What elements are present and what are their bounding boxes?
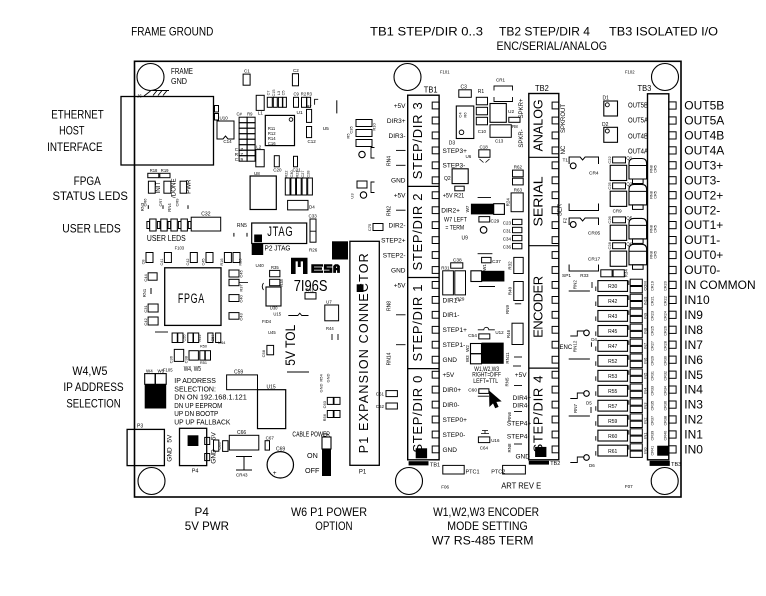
testpoint TP2: [360, 192, 366, 198]
svg-text:RN1: RN1: [142, 288, 147, 297]
svg-text:DIR0-: DIR0-: [443, 402, 460, 409]
svg-text:C64: C64: [480, 445, 489, 450]
svg-text:U9: U9: [462, 236, 469, 242]
svg-text:R56: R56: [322, 413, 327, 421]
svg-text:IN1: IN1: [684, 428, 703, 442]
svg-text:GND: GND: [326, 373, 331, 382]
svg-text:= TERM: = TERM: [445, 224, 464, 231]
resistor R60: [598, 430, 628, 441]
svg-text:C35: C35: [349, 126, 354, 134]
svg-text:TB3: TB3: [638, 84, 652, 93]
svg-text:COM: COM: [642, 281, 647, 290]
svg-text:+5V: +5V: [443, 372, 455, 379]
capacitors row below FPGA C55 R50 R51 C57: [155, 331, 168, 333]
mounting hole top-middle: [394, 64, 421, 91]
svg-text:RN3: RN3: [140, 202, 145, 211]
board outline: [135, 61, 682, 497]
svg-text:W6: W6: [322, 432, 329, 437]
svg-text:IN2: IN2: [642, 417, 647, 424]
connector P1 expansion: [350, 241, 379, 465]
svg-text:C43: C43: [239, 313, 244, 321]
svg-text:UP UP FALLBACK: UP UP FALLBACK: [174, 418, 230, 427]
svg-text:STEP1+: STEP1+: [443, 327, 468, 334]
svg-text:5V TOL: 5V TOL: [283, 324, 298, 365]
svg-text:RN11: RN11: [505, 352, 510, 364]
MESA logo: [291, 258, 308, 274]
capacitors row C8 C41 C42b C45 R16 R20: [146, 253, 153, 263]
svg-text:OUT5B: OUT5B: [684, 99, 724, 113]
diode pair row R47: [630, 339, 642, 345]
svg-text:CR5: CR5: [653, 191, 657, 199]
resistor R57: [598, 400, 628, 411]
svg-text:D3: D3: [449, 140, 456, 146]
svg-text:OUT0-: OUT0-: [684, 263, 720, 277]
svg-text:CR35: CR35: [651, 401, 655, 411]
svg-text:GND: GND: [391, 267, 406, 274]
svg-text:F2: F2: [563, 217, 569, 223]
resistor R43: [598, 311, 628, 322]
svg-text:C23: C23: [503, 220, 512, 225]
svg-text:R63: R63: [514, 188, 523, 193]
svg-text:C2: C2: [293, 68, 299, 73]
capacitor C74 cluster: [357, 181, 367, 188]
svg-text:C45: C45: [239, 270, 244, 278]
chassis ground symbol J6: [144, 91, 151, 96]
svg-text:RN8: RN8: [507, 443, 512, 452]
svg-text:R30: R30: [608, 284, 617, 290]
svg-text:W5: W5: [158, 369, 165, 374]
svg-text:GND: GND: [166, 447, 173, 462]
svg-text:STEP4+: STEP4+: [507, 421, 532, 428]
svg-text:F06: F06: [441, 485, 449, 490]
svg-text:OUT5A: OUT5A: [684, 114, 724, 128]
diode pair row R43: [630, 309, 642, 315]
svg-text:IN4: IN4: [642, 387, 647, 394]
svg-text:W1,W2,W3 ENCODER: W1,W2,W3 ENCODER: [433, 505, 539, 519]
wire under RN7: [569, 415, 590, 417]
svg-text:IN1: IN1: [642, 432, 647, 439]
svg-text:U10: U10: [220, 116, 229, 121]
svg-text:P4: P4: [192, 469, 199, 475]
svg-text:INIT: INIT: [155, 182, 162, 194]
svg-text:OUT0+: OUT0+: [684, 248, 723, 262]
TB3 bottom bar: [650, 461, 670, 466]
svg-text:W1: W1: [482, 264, 487, 271]
svg-text:IN5: IN5: [684, 368, 703, 382]
svg-text:IN7: IN7: [684, 338, 703, 352]
svg-text:STEP/DIR 4: STEP/DIR 4: [531, 376, 546, 453]
svg-text:C67: C67: [266, 435, 275, 440]
resistor R38: [270, 279, 280, 285]
svg-text:C61: C61: [376, 391, 385, 396]
svg-text:STATUS LEDS: STATUS LEDS: [52, 189, 127, 203]
wire segment right of U1: [336, 100, 338, 113]
svg-text:D6: D6: [589, 463, 595, 468]
svg-text:FRAME: FRAME: [171, 67, 193, 76]
diode pair row R57: [630, 399, 642, 405]
TB1 pin1 black square: [416, 448, 427, 458]
TB2 bottom bar: [529, 461, 549, 465]
svg-text:SP1: SP1: [562, 273, 571, 279]
svg-text:R44: R44: [326, 326, 334, 331]
wire above ENC rows: [569, 290, 590, 292]
svg-text:OUT2-: OUT2-: [684, 203, 720, 217]
svg-text:R54: R54: [319, 374, 324, 382]
capacitor C20: [274, 156, 279, 167]
capacitors CN pair right of ethernet: [215, 106, 219, 113]
svg-text:R49: R49: [198, 335, 202, 342]
svg-text:IN8: IN8: [684, 323, 703, 337]
capacitor C12: [307, 127, 312, 138]
svg-text:F105: F105: [163, 368, 173, 373]
svg-text:PTC1: PTC1: [466, 469, 480, 475]
svg-text:C42: C42: [186, 259, 190, 266]
svg-text:CR23: CR23: [651, 311, 655, 321]
svg-text:C5: C5: [282, 91, 286, 96]
svg-text:GND: GND: [319, 383, 324, 392]
svg-text:C75: C75: [367, 223, 372, 231]
svg-text:PWR: PWR: [186, 179, 193, 194]
svg-text:IN8: IN8: [642, 327, 647, 334]
svg-text:U15: U15: [273, 312, 281, 317]
svg-text:IN3: IN3: [684, 398, 703, 412]
svg-text:ETHERNET: ETHERNET: [51, 107, 104, 121]
svg-text:OFF: OFF: [305, 466, 320, 475]
svg-text:RN12: RN12: [572, 340, 577, 352]
svg-text:ART REV E: ART REV E: [501, 481, 541, 490]
capacitor C75: [373, 224, 383, 231]
svg-text:C27: C27: [301, 171, 305, 178]
svg-text:GND: GND: [391, 178, 406, 185]
capacitor C45 right of FPGA: [229, 270, 239, 277]
svg-text:CR29: CR29: [651, 356, 655, 366]
svg-text:U2: U2: [508, 109, 514, 115]
svg-text:DIR4-: DIR4-: [513, 403, 530, 410]
svg-text:CR26: CR26: [664, 326, 668, 336]
svg-text:W4: W4: [146, 369, 153, 374]
svg-text:R47: R47: [608, 344, 617, 350]
svg-text:C20: C20: [273, 168, 282, 173]
diode pair row R59: [630, 414, 642, 420]
capacitor C21: [294, 156, 298, 167]
svg-text:C36: C36: [503, 245, 512, 250]
svg-text:R51: R51: [200, 361, 207, 365]
svg-text:RN8: RN8: [387, 301, 393, 311]
inductor L1: [256, 95, 264, 110]
diode CR43: [236, 456, 252, 458]
resistor R47: [598, 341, 628, 352]
svg-text:D5: D5: [586, 401, 592, 406]
svg-text:C55: C55: [183, 335, 187, 342]
svg-text:CR40: CR40: [664, 431, 668, 441]
TB3 pin1 black square: [657, 446, 668, 456]
svg-text:R31: R31: [441, 265, 450, 270]
svg-text:C37: C37: [492, 259, 501, 265]
svg-text:IN7: IN7: [642, 342, 647, 349]
svg-text:C45: C45: [202, 259, 206, 266]
resistor R53: [598, 370, 628, 381]
svg-text:U44: U44: [218, 340, 226, 345]
svg-text:C9: C9: [294, 92, 300, 97]
svg-text:RN2: RN2: [387, 206, 393, 216]
svg-text:U1: U1: [297, 110, 303, 116]
svg-text:STEP1-: STEP1-: [443, 342, 466, 349]
svg-text:C31: C31: [503, 228, 512, 233]
svg-text:FID4: FID4: [262, 319, 272, 324]
resistor R8: [509, 117, 520, 122]
resistors R5 C35 R10 cluster: [356, 120, 372, 127]
capacitor C29: [479, 217, 490, 222]
svg-text:IN6: IN6: [684, 353, 703, 367]
svg-text:USER LEDS: USER LEDS: [147, 234, 186, 243]
svg-text:CR34: CR34: [664, 386, 668, 396]
capacitor C13: [490, 125, 511, 138]
svg-text:ENCODER: ENCODER: [531, 276, 546, 338]
TB1 pins: [432, 102, 439, 109]
svg-text:R8: R8: [512, 124, 518, 129]
diode pair row R53: [630, 369, 642, 375]
svg-text:CR41: CR41: [651, 446, 655, 456]
svg-text:FPGA: FPGA: [178, 291, 205, 306]
svg-text:C34: C34: [503, 236, 512, 241]
chip U30: [262, 283, 263, 290]
svg-text:R29: R29: [456, 297, 465, 302]
mounting hole bottom-middle: [396, 468, 423, 495]
svg-text:RN5: RN5: [237, 223, 247, 229]
svg-text:U30: U30: [270, 306, 278, 311]
fuse U12: [478, 327, 495, 330]
svg-text:R55: R55: [608, 389, 617, 395]
svg-text:R61: R61: [608, 449, 617, 455]
svg-text:F102: F102: [625, 70, 635, 75]
svg-text:INTERFACE: INTERFACE: [47, 140, 103, 154]
svg-text:IN COMMON: IN COMMON: [684, 278, 755, 292]
svg-text:R9: R9: [247, 112, 253, 117]
svg-text:C10: C10: [478, 129, 487, 134]
svg-text:W6 P1 POWER: W6 P1 POWER: [291, 505, 367, 519]
svg-text:CR31: CR31: [651, 371, 655, 381]
svg-text:USER LEDS: USER LEDS: [62, 222, 121, 236]
svg-text:U7: U7: [326, 300, 332, 305]
svg-text:CR38: CR38: [664, 416, 668, 426]
svg-text:R62: R62: [514, 165, 523, 170]
mounting hole bottom-left: [138, 468, 165, 495]
svg-text:FRAME GROUND: FRAME GROUND: [131, 25, 213, 39]
svg-text:OUT5B: OUT5B: [628, 102, 648, 109]
svg-text:U6: U6: [466, 154, 472, 159]
svg-text:IN3: IN3: [642, 402, 647, 409]
svg-text:C#: C#: [237, 112, 243, 117]
svg-text:RN6: RN6: [507, 412, 512, 421]
svg-text:CR32: CR32: [664, 371, 668, 381]
svg-text:IN10: IN10: [684, 293, 710, 307]
svg-text:R7: R7: [307, 104, 313, 109]
jumper symbol D5: [570, 393, 584, 399]
svg-text:CR5: CR5: [653, 165, 657, 173]
svg-text:R45: R45: [608, 329, 617, 335]
svg-text:R32: R32: [508, 261, 513, 270]
TB1 left dashes: [396, 149, 406, 151]
svg-text:DIR0+: DIR0+: [443, 387, 462, 394]
svg-text:HOST: HOST: [59, 124, 85, 138]
TB2 pin1 black square: [535, 447, 546, 457]
svg-text:+5V: +5V: [394, 103, 406, 110]
svg-text:C31: C31: [143, 305, 148, 313]
svg-text:C57: C57: [211, 335, 215, 342]
resistor R59: [598, 415, 628, 426]
svg-text:C38: C38: [184, 355, 189, 363]
svg-text:STEP2-: STEP2-: [383, 252, 406, 259]
svg-text:C13: C13: [495, 139, 504, 144]
svg-text:R18: R18: [150, 168, 158, 173]
svg-text:+5V: +5V: [515, 372, 527, 379]
svg-text:STEP2+: STEP2+: [381, 238, 406, 245]
svg-text:U5: U5: [323, 126, 329, 132]
svg-text:C60: C60: [468, 387, 477, 393]
svg-text:RN4: RN4: [167, 203, 172, 212]
svg-text:R20: R20: [239, 259, 243, 266]
svg-text:CR43: CR43: [236, 473, 248, 478]
svg-text:C7: C7: [267, 91, 271, 96]
svg-text:W3: W3: [465, 355, 470, 362]
TB2 section dividers: [529, 156, 559, 158]
svg-text:5V PWR: 5V PWR: [185, 519, 230, 533]
user LEDs CR10-CR13: [150, 219, 156, 231]
svg-text:R16: R16: [220, 259, 224, 266]
svg-text:OUT4B: OUT4B: [628, 133, 648, 140]
svg-text:CR19: CR19: [651, 281, 655, 291]
svg-text:R52: R52: [608, 359, 617, 365]
svg-text:C15: C15: [272, 90, 276, 97]
svg-text:CR05: CR05: [588, 231, 601, 237]
svg-text:STEP0-: STEP0-: [443, 432, 466, 439]
resistor R30: [598, 281, 628, 292]
hook mark near R3: [315, 99, 319, 105]
svg-text:ON: ON: [307, 451, 318, 460]
resistor R55: [598, 385, 628, 396]
svg-text:R38: R38: [279, 279, 284, 287]
svg-text:L2: L2: [256, 145, 262, 150]
svg-text:MODE SETTING: MODE SETTING: [447, 519, 527, 533]
svg-text:U8: U8: [254, 171, 260, 176]
svg-text:R10: R10: [372, 123, 377, 131]
svg-text:RN5: RN5: [504, 377, 509, 386]
testpoint circle near C29: [480, 227, 487, 234]
svg-text:SELECTION: SELECTION: [66, 397, 120, 411]
resistor R37: [229, 279, 239, 285]
svg-text:STEP/DIR 0: STEP/DIR 0: [410, 376, 425, 453]
svg-text:IN9: IN9: [684, 308, 703, 322]
svg-text:R40: R40: [508, 286, 513, 295]
black marker near P1 top: [332, 241, 348, 259]
LED CR6 INIT: [148, 181, 155, 193]
testpoint TP1: [359, 151, 365, 157]
svg-text:C28: C28: [607, 241, 612, 249]
connector P4: [180, 428, 207, 465]
svg-text:RN7: RN7: [573, 404, 578, 413]
svg-text:C8: C8: [142, 260, 146, 265]
svg-text:GND: GND: [171, 77, 187, 86]
svg-text:P4: P4: [195, 505, 210, 519]
ethernet connector J1: [121, 97, 214, 166]
svg-text:TB1: TB1: [430, 463, 440, 469]
LED CR9 PWR: [180, 181, 187, 193]
svg-text:C12: C12: [308, 139, 317, 144]
FPGA U3: [165, 268, 221, 326]
svg-text:C29: C29: [491, 218, 500, 224]
capacitor C4 R6: [456, 106, 474, 139]
svg-text:TB2: TB2: [535, 84, 549, 93]
wire under ENC: [569, 358, 590, 360]
svg-text:GND: GND: [443, 357, 458, 364]
resistor R63: [513, 178, 524, 185]
capacitor C40: [229, 295, 239, 302]
svg-text:CR28: CR28: [664, 341, 668, 351]
svg-text:RN9: RN9: [505, 305, 510, 314]
diode pair row R52: [630, 354, 642, 360]
jumper symbol D4 enc: [570, 331, 584, 336]
svg-text:RN4: RN4: [387, 156, 393, 166]
svg-text:R42: R42: [608, 299, 617, 305]
svg-text:5V: 5V: [211, 432, 218, 441]
svg-text:STEP4-: STEP4-: [507, 433, 530, 440]
svg-text:ANALOG: ANALOG: [531, 99, 546, 151]
svg-text:DIR2+: DIR2+: [441, 208, 460, 215]
svg-text:RN14: RN14: [387, 352, 393, 365]
svg-text:CR7: CR7: [158, 198, 163, 207]
mounting hole top-right: [652, 64, 679, 91]
diode pair row R61: [630, 444, 642, 450]
svg-text:CR4: CR4: [589, 171, 599, 177]
svg-text:SPKR+: SPKR+: [519, 98, 525, 118]
svg-text:OUT1+: OUT1+: [684, 218, 723, 232]
svg-text:C62: C62: [376, 404, 385, 409]
svg-text:OUT1-: OUT1-: [684, 233, 720, 247]
svg-text:U3: U3: [350, 193, 355, 199]
resistor R52: [598, 355, 628, 366]
mounting hole top-left (frame gnd): [137, 64, 164, 91]
diode pair row R60: [630, 429, 642, 435]
diode pair row R30: [630, 279, 642, 285]
TB3 pins: [669, 102, 676, 109]
TB1 bottom bar: [409, 461, 429, 465]
svg-text:U45: U45: [268, 330, 276, 335]
svg-text:U12: U12: [495, 330, 504, 335]
svg-text:C14: C14: [223, 139, 232, 144]
svg-text:R22: R22: [285, 171, 289, 178]
svg-text:CR25: CR25: [651, 326, 655, 336]
svg-text:IN0: IN0: [642, 447, 647, 454]
svg-text:CR21: CR21: [651, 296, 655, 306]
svg-text:C42: C42: [143, 318, 148, 326]
svg-text:T1: T1: [563, 158, 569, 164]
svg-text:W7 RS-485 TERM: W7 RS-485 TERM: [432, 533, 534, 547]
svg-text:OUT4A: OUT4A: [684, 144, 724, 158]
svg-text:CR33: CR33: [651, 386, 655, 396]
svg-text:IP ADDRESS: IP ADDRESS: [63, 380, 123, 394]
svg-text:DIR1-: DIR1-: [443, 312, 460, 319]
svg-text:CR36: CR36: [664, 401, 668, 411]
svg-text:R35: R35: [271, 265, 279, 270]
svg-text:D4: D4: [591, 337, 597, 342]
resistor R7: [307, 109, 312, 122]
mouse cursor: [490, 392, 501, 408]
svg-text:TB3 ISOLATED I/O: TB3 ISOLATED I/O: [609, 25, 718, 39]
svg-text:SER: SER: [558, 203, 564, 216]
svg-text:OPTION: OPTION: [315, 519, 352, 533]
svg-text:P2 JTAG: P2 JTAG: [265, 244, 291, 253]
svg-text:D4: D4: [309, 205, 315, 210]
